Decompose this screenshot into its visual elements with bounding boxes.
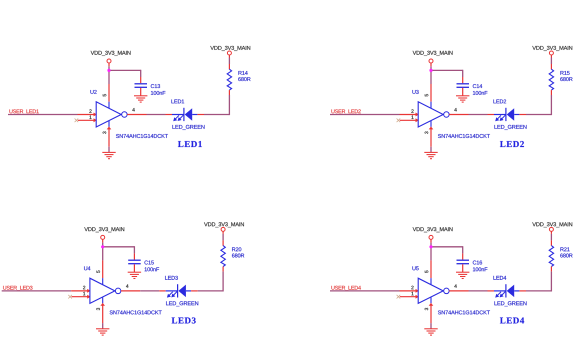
- value label 680R: [232, 254, 244, 258]
- wire LED to resistor: [198, 290, 223, 292]
- value label 680R: [238, 77, 250, 81]
- LED LED1 anode-side pin: [197, 114, 204, 116]
- power port VDD_3V3_MAIN (U2 supply): [91, 51, 131, 56]
- LED LED2 cathode-side pin: [488, 114, 495, 116]
- pin number 3: [96, 308, 99, 310]
- resistor R21: [549, 246, 553, 267]
- capacitor C13 bottom pin: [140, 88, 142, 96]
- no-ERC marker (X) on pin 1: [75, 119, 79, 123]
- pin number 1: [83, 292, 85, 295]
- capacitor C13 top pin: [140, 77, 142, 83]
- net label USER_LED1: [9, 109, 38, 114]
- wire junction down to pin 5: [430, 247, 432, 261]
- pin number 5: [103, 94, 106, 96]
- part number SN74AHC1G14DCKT: [116, 134, 168, 138]
- part number SN74AHC1G14DCKT: [438, 134, 490, 138]
- LED LED3 (diode symbol): [166, 290, 178, 292]
- wire pin 4 to LED: [147, 114, 166, 116]
- wire VDD stem to junction: [430, 243, 432, 247]
- value label R15: [560, 71, 569, 75]
- resistor R14 bottom pin: [228, 90, 230, 95]
- inverter U2 output bubble: [122, 112, 128, 118]
- wire junction to capacitor (horizontal): [430, 246, 462, 248]
- designator LED3: [165, 276, 178, 280]
- capacitor C14: [457, 83, 470, 85]
- wire pin 4 to LED: [469, 114, 488, 116]
- inverter U4 triangle: [90, 278, 115, 303]
- no-ERC marker (X) on pin 1: [397, 119, 401, 123]
- ground (below U4): [96, 328, 109, 330]
- wire USER_LED1 to pin 2: [8, 114, 78, 116]
- LED LED4 emission arrows: [497, 292, 501, 296]
- pin 2 of U4 (input): [71, 290, 89, 292]
- resistor R21 bottom pin: [550, 267, 552, 272]
- pin number 3: [103, 131, 106, 133]
- wire junction to capacitor (horizontal): [108, 69, 140, 71]
- designator U2: [90, 90, 96, 94]
- power port VDD_3V3_MAIN (U4 supply): [84, 227, 124, 232]
- LED LED1 cathode-side pin: [166, 114, 173, 116]
- power symbol circle VDD (R15): [549, 51, 553, 55]
- pin number 2: [411, 109, 413, 112]
- inverter U3 triangle: [418, 102, 443, 127]
- capacitor C15 top pin: [133, 253, 135, 259]
- value label C13: [151, 84, 160, 88]
- resistor R21 top pin: [550, 240, 552, 245]
- value label C14: [473, 84, 482, 88]
- part number SN74AHC1G14DCKT: [110, 310, 162, 314]
- power symbol circle VDD (R21): [549, 227, 553, 231]
- capacitor C14 bottom pin: [462, 88, 464, 96]
- capacitor C16 top pin: [462, 253, 464, 259]
- pin number 3: [425, 131, 428, 133]
- value label 100nF: [145, 267, 159, 271]
- pin number 4: [454, 284, 456, 287]
- LED LED2 (diode symbol): [494, 114, 506, 116]
- power port VDD_3V3_MAIN (U3 supply): [413, 51, 453, 56]
- designator LED4: [493, 276, 506, 280]
- comment label LED_GREEN: [166, 301, 198, 306]
- inverter U5 triangle: [418, 278, 443, 303]
- power port VDD_3V3_MAIN (R15 supply): [532, 46, 572, 51]
- value label R14: [238, 71, 247, 75]
- wire down to capacitor: [140, 70, 142, 77]
- part number SN74AHC1G14DCKT: [438, 310, 490, 314]
- junction node: [107, 69, 110, 72]
- wire pin 4 to LED: [469, 290, 488, 292]
- wire USER_LED2 to pin 2: [330, 114, 400, 116]
- junction node: [101, 245, 104, 248]
- pin 3 of U4 (GND): [102, 297, 104, 303]
- designator U5: [412, 266, 418, 270]
- value label R21: [560, 247, 569, 251]
- pin 2 of U5 (input): [400, 290, 418, 292]
- wire down to capacitor: [133, 246, 135, 253]
- pin number 5: [425, 270, 428, 272]
- resistor R14: [227, 69, 231, 90]
- pin 4 of U5 (output): [449, 290, 468, 292]
- pin 2 of U2 (input): [78, 114, 96, 116]
- LED LED3 emission arrows: [169, 292, 173, 296]
- inverter U2 triangle: [96, 102, 121, 127]
- pin number 1: [411, 292, 413, 295]
- pin number 5: [425, 94, 428, 96]
- resistor R20 top pin: [222, 240, 224, 245]
- wire junction down to pin 5: [430, 70, 432, 84]
- power symbol circle VDD (R14): [227, 51, 231, 55]
- capacitor C15 bottom pin: [133, 264, 135, 272]
- ground (below U3): [424, 151, 437, 153]
- designator LED2: [493, 99, 506, 103]
- ground (below U5): [424, 328, 437, 330]
- power symbol circle VDD (U2): [107, 59, 111, 63]
- net label USER_LED2: [331, 109, 360, 114]
- wire pin 3 to ground: [430, 147, 432, 153]
- wire VDD to R20: [222, 234, 224, 241]
- LED LED1 (diode symbol): [172, 114, 184, 116]
- pin number 3: [425, 308, 428, 310]
- resistor R20: [221, 246, 225, 267]
- wire LED to resistor: [526, 290, 551, 292]
- wire USER_LED3 to pin 2: [2, 290, 72, 292]
- comment label LED_GREEN: [172, 125, 204, 130]
- pin 4 of U4 (output): [121, 290, 140, 292]
- value label C15: [144, 261, 153, 265]
- wire USER_LED4 to pin 2: [330, 290, 400, 292]
- designator U4: [84, 266, 90, 270]
- wire pin 3 to ground: [102, 323, 104, 329]
- pin 4 of U3 (output): [449, 114, 468, 116]
- resistor R14 top pin: [228, 64, 230, 69]
- pin number 2: [411, 286, 413, 289]
- pin number 5: [97, 270, 100, 272]
- power port VDD_3V3_MAIN (U5 supply): [413, 227, 453, 232]
- pin number 4: [126, 284, 128, 287]
- inverter U3 output bubble: [444, 112, 450, 118]
- resistor R20 bottom pin: [222, 267, 224, 272]
- power symbol circle VDD (R20): [221, 227, 225, 231]
- ground (below C15): [128, 271, 141, 273]
- value label R20: [232, 247, 241, 251]
- LED LED2 anode-side pin: [519, 114, 526, 116]
- wire VDD to R15: [550, 58, 552, 65]
- value label 680R: [560, 254, 572, 258]
- value label 100nF: [473, 91, 487, 95]
- wire VDD stem to junction: [108, 66, 110, 70]
- pin 1 of U5: [400, 296, 418, 298]
- LED LED3 anode-side pin: [191, 290, 198, 292]
- value label 680R: [560, 77, 572, 81]
- wire LED to resistor: [526, 114, 551, 116]
- value label 100nF: [151, 91, 165, 95]
- wire junction down to pin 5: [108, 70, 110, 84]
- pin number 1: [89, 116, 91, 119]
- pin 1 of U4: [72, 296, 90, 298]
- power port VDD_3V3_MAIN (R21 supply): [532, 222, 572, 227]
- inverter U5 output bubble: [444, 288, 450, 294]
- capacitor C13: [135, 83, 148, 85]
- LED LED1 emission arrows: [175, 115, 179, 119]
- sheet label LED2 (bold): [500, 141, 524, 147]
- pin 5 of U2 (VCC): [108, 84, 110, 102]
- wire pin 3 to ground: [430, 323, 432, 329]
- ground (below C16): [456, 271, 469, 273]
- inverter U4 output bubble: [115, 288, 121, 294]
- comment label LED_GREEN: [494, 301, 526, 306]
- pin number 4: [132, 108, 134, 111]
- pin 5 of U5 (VCC): [430, 260, 432, 278]
- pin 5 of U3 (VCC): [430, 84, 432, 102]
- sheet label LED1 (bold): [178, 141, 202, 147]
- ground (below C14): [456, 95, 469, 97]
- value label 100nF: [473, 267, 487, 271]
- ground (below U2): [102, 151, 115, 153]
- wire VDD to R14: [228, 58, 230, 65]
- pin 3 of U3 (GND): [430, 121, 432, 127]
- wire LED to resistor: [204, 114, 229, 116]
- capacitor C16: [457, 259, 470, 261]
- power symbol circle VDD (U4): [101, 235, 105, 239]
- no-ERC marker (X) on pin 1: [68, 295, 72, 299]
- pin 1 of U3: [400, 119, 418, 121]
- wire VDD to R21: [550, 234, 552, 241]
- pin number 2: [83, 286, 85, 289]
- sheet label LED3 (bold): [172, 317, 196, 323]
- capacitor C14 top pin: [462, 77, 464, 83]
- net label USER_LED4: [331, 286, 360, 291]
- designator U3: [412, 90, 418, 94]
- LED LED3 cathode-side pin: [159, 290, 166, 292]
- no-ERC marker (X) on pin 1: [397, 295, 401, 299]
- power symbol circle VDD (U3): [429, 59, 433, 63]
- capacitor C16 bottom pin: [462, 264, 464, 272]
- pin 3 of U2 (GND): [108, 121, 110, 127]
- power port VDD_3V3_MAIN (R14 supply): [210, 46, 250, 51]
- LED LED2 emission arrows: [497, 115, 501, 119]
- wire junction down to pin 5: [102, 247, 104, 261]
- pin number 1: [411, 116, 413, 119]
- sheet label LED4 (bold): [500, 317, 524, 323]
- pin number 4: [454, 108, 456, 111]
- LED LED4 cathode-side pin: [488, 290, 495, 292]
- value label C16: [473, 261, 482, 265]
- ground (below C13): [134, 95, 147, 97]
- capacitor C15: [128, 259, 141, 261]
- wire pin 4 to LED: [140, 290, 159, 292]
- power symbol circle VDD (U5): [429, 235, 433, 239]
- resistor R15 bottom pin: [550, 90, 552, 95]
- power port VDD_3V3_MAIN (R20 supply): [204, 222, 244, 227]
- pin 2 of U3 (input): [400, 114, 418, 116]
- pin number 2: [89, 109, 91, 112]
- LED LED4 (diode symbol): [494, 290, 506, 292]
- wire VDD stem to junction: [430, 66, 432, 70]
- wire down to capacitor: [462, 70, 464, 77]
- wire junction to capacitor (horizontal): [430, 69, 462, 71]
- LED LED4 anode-side pin: [519, 290, 526, 292]
- designator LED1: [171, 100, 184, 104]
- pin 3 of U5 (GND): [430, 297, 432, 303]
- wire junction to capacitor (horizontal): [102, 246, 134, 248]
- net label USER_LED3: [3, 286, 32, 291]
- pin 5 of U4 (VCC): [102, 260, 104, 278]
- pin 1 of U2: [78, 119, 96, 121]
- junction node: [429, 69, 432, 72]
- resistor R15 top pin: [550, 64, 552, 69]
- resistor R15: [549, 69, 553, 90]
- comment label LED_GREEN: [494, 125, 526, 130]
- wire pin 3 to ground: [108, 147, 110, 153]
- wire down to capacitor: [462, 246, 464, 253]
- wire VDD stem to junction: [102, 243, 104, 247]
- junction node: [429, 245, 432, 248]
- pin 4 of U2 (output): [127, 114, 146, 116]
